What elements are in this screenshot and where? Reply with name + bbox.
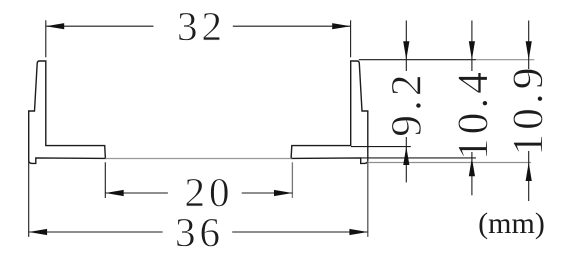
dim 36 extension line right [367,161,369,237]
top extension line (flange top, right side) dark part [359,59,476,61]
dim 10.4 arrow down [469,41,475,59]
svg-text:10.4: 10.4 [449,68,497,160]
ext line 10.4 (base bottom) [361,157,476,159]
dim 36 extension line left [28,161,30,237]
dim 32 line left segment [46,25,154,27]
top extension line gray part [476,59,534,61]
profile left flange outline [29,61,106,163]
svg-text:(mm): (mm) [478,207,545,240]
dim 20 line right segment [242,192,293,194]
ext line 9.2 (channel floor) [351,146,411,148]
dim 10.4 line lower [471,152,473,195]
dim 10.4 arrow up [469,158,475,176]
dim 36 line right segment [232,231,368,233]
dim 20 arrow right [274,190,292,196]
svg-text:10.9: 10.9 [504,63,552,155]
svg-text:32: 32 [177,3,226,49]
dim 10.9 arrow down [526,41,532,59]
dim 9.2 line lower [405,137,407,182]
dim 20 arrow left [105,190,123,196]
ext line 10.9 (foot bottom) gray [368,162,531,164]
dim 36 arrow right [349,229,367,235]
dim 10.9 line lower [528,151,530,201]
dim 32 arrow left [46,23,64,29]
dim 32 extension line left [45,20,47,57]
dim 10.9 arrow up [526,163,532,182]
dim 32 arrow right [332,23,350,29]
dim 36 line left segment [29,231,163,233]
dim 9.2 arrow down [403,41,409,59]
dim 10.4 line upper [471,21,473,72]
dim 20 line left segment [105,192,168,194]
profile right flange outline [291,61,368,163]
dim 32 extension line right [350,20,352,57]
dim 10.9 line upper [528,21,530,71]
dim 9.2 line upper [405,21,407,72]
base middle line [105,158,291,160]
dim 32 line right segment [233,25,351,27]
dim 36 arrow left [29,229,47,235]
dim 9.2 arrow up [403,147,409,165]
dim 20 extension line right [291,162,293,198]
svg-text:36: 36 [175,209,224,255]
svg-text:9.2: 9.2 [383,70,431,136]
dim 20 extension line left [104,162,106,198]
